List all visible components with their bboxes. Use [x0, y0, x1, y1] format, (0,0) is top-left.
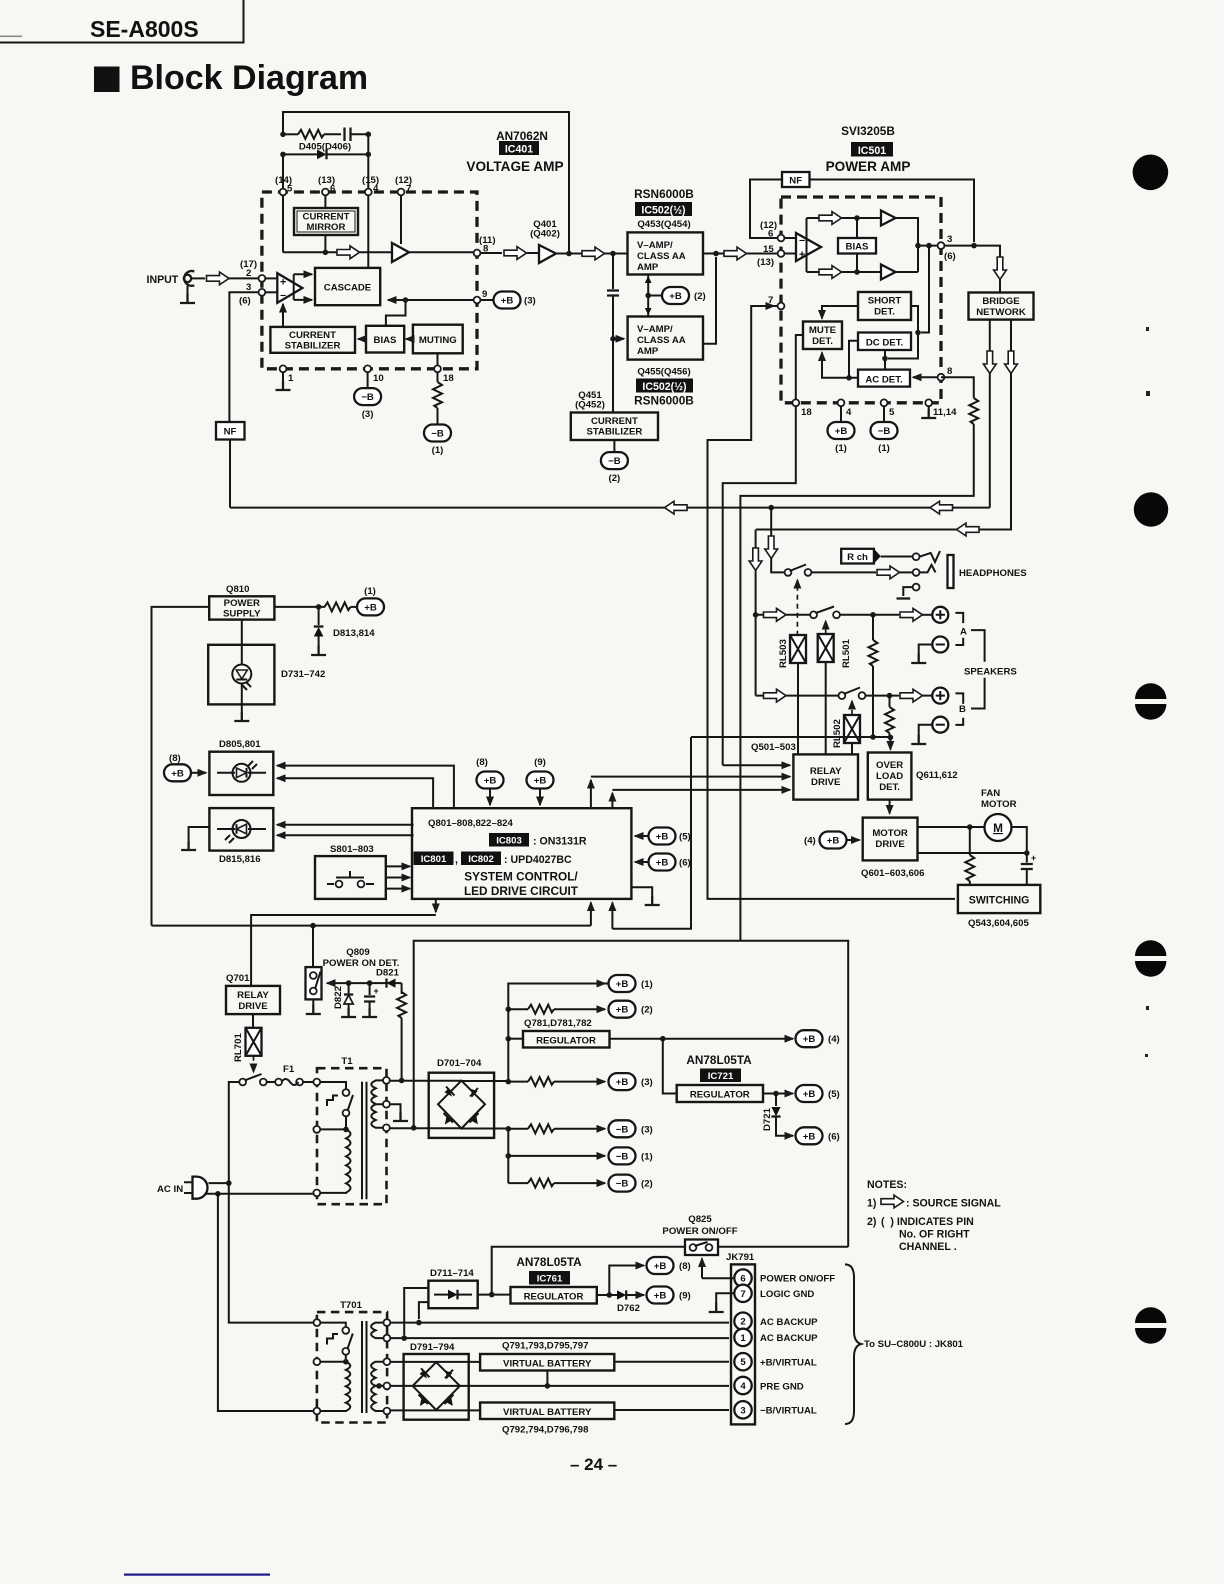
- ground pin11,14: [921, 406, 936, 418]
- svg-text:(1): (1): [878, 443, 890, 454]
- pin 9: [474, 297, 481, 304]
- svg-text:Q781,D781,782: Q781,D781,782: [524, 1018, 592, 1029]
- relay drive box (speakers): [793, 754, 858, 799]
- wire contact to jack L: [811, 571, 876, 573]
- label Q809 POWER ON DET.: [323, 947, 400, 969]
- NF box (input side): [216, 422, 245, 440]
- svg-text:D805,801: D805,801: [219, 739, 261, 750]
- wire line A2 overload return: [612, 737, 691, 929]
- wire pin5 to signal rail: [282, 195, 284, 252]
- svg-text:Q501–503: Q501–503: [751, 742, 796, 753]
- short det box: [858, 292, 911, 320]
- svg-text:D731–742: D731–742: [281, 669, 325, 680]
- label AN78L05TA IC761: [516, 1255, 582, 1285]
- node line B join: [411, 1125, 417, 1131]
- wires opamp to cascade: [294, 274, 312, 300]
- wire plus rail up: [508, 984, 608, 1082]
- source arrow before IC501: [724, 247, 747, 260]
- jack contact L: [913, 569, 920, 576]
- pin 18 IC501: [792, 399, 799, 406]
- +B (8) supply: [647, 1257, 691, 1274]
- mute det box: [803, 322, 842, 350]
- label IC502 (1/2) lower (inverted): [636, 379, 693, 394]
- source arrow NF line right: [930, 501, 953, 514]
- wire IC761 out: [597, 1294, 617, 1296]
- wire Q401 to V-AMP rail: [556, 253, 628, 255]
- power amp triangle: [796, 233, 821, 261]
- pin 15: [778, 250, 785, 257]
- node resistor takeoff: [967, 824, 973, 830]
- svg-text:LOAD: LOAD: [876, 771, 903, 782]
- wire pin6 to amp: [784, 237, 796, 239]
- pin 4 connector: [734, 1377, 751, 1394]
- wire amp to pin8: [409, 251, 502, 254]
- +B (1) supply pin4: [828, 406, 855, 454]
- svg-text:9: 9: [482, 289, 487, 300]
- speaker terminal A-: [932, 637, 948, 653]
- svg-text:R ch: R ch: [847, 552, 868, 563]
- svg-text:IC502(½): IC502(½): [642, 381, 686, 393]
- svg-text:STABILIZER: STABILIZER: [587, 427, 643, 438]
- svg-text:IC801: IC801: [421, 854, 447, 865]
- wire input to pin2: [191, 277, 205, 279]
- pin 7: [398, 189, 405, 196]
- wire D711 inputs from AC backup: [404, 1288, 428, 1335]
- svg-text:D711–714: D711–714: [430, 1268, 474, 1279]
- wire output to pin3: [918, 245, 938, 247]
- pin 8: [938, 374, 945, 381]
- wire V-AMP2 output loop: [703, 257, 716, 344]
- registration mark circle 2: [1134, 492, 1168, 526]
- node plus rail: [506, 1079, 512, 1085]
- wire line A (supply rail): [152, 925, 591, 927]
- svg-text:LED DRIVE CIRCUIT: LED DRIVE CIRCUIT: [464, 884, 579, 898]
- svg-text:DET.: DET.: [874, 307, 895, 318]
- ground D815: [181, 827, 209, 850]
- relay coil RL502 dashed link: [851, 701, 853, 715]
- svg-text:AC BACKUP: AC BACKUP: [760, 1333, 818, 1344]
- relay coil RL503 dashed link: [796, 580, 798, 636]
- wire top drive path: [807, 217, 882, 219]
- svg-text:+: +: [799, 249, 805, 261]
- node ac det left: [846, 375, 852, 381]
- wire secondary top to bridge: [390, 1080, 462, 1082]
- svg-text:SWITCHING: SWITCHING: [969, 895, 1030, 907]
- svg-text:(3): (3): [524, 296, 536, 307]
- svg-text:INPUT: INPUT: [147, 274, 179, 286]
- wire motor drive bottom out: [918, 852, 1027, 854]
- wire NF to speaker line: [229, 440, 231, 508]
- svg-text:SYSTEM CONTROL/: SYSTEM CONTROL/: [464, 870, 578, 884]
- svg-text:SHORT: SHORT: [868, 296, 902, 307]
- wire minus rail down: [507, 1129, 509, 1183]
- T1 primary terminals: [313, 1079, 320, 1197]
- node minus rail: [506, 1126, 512, 1132]
- svg-text:1: 1: [288, 373, 294, 384]
- svg-text:2: 2: [246, 268, 251, 279]
- svg-text:MUTE: MUTE: [809, 325, 837, 336]
- svg-text:V–AMP/: V–AMP/: [637, 324, 673, 335]
- svg-text:,: ,: [455, 854, 458, 866]
- svg-text:AN78L05TA: AN78L05TA: [686, 1053, 752, 1067]
- svg-text:(1): (1): [835, 443, 847, 454]
- wire pin7 to buffer amp: [400, 195, 402, 244]
- node V-AMP out join: [713, 251, 719, 257]
- svg-text:(Q452): (Q452): [575, 400, 605, 411]
- headphone relay contact: [785, 565, 812, 576]
- speaker terminal A+: [932, 607, 948, 623]
- svg-text:IC761: IC761: [537, 1274, 563, 1285]
- svg-text:CURRENT: CURRENT: [591, 416, 638, 427]
- AC relay contact: [239, 1074, 266, 1085]
- resistor overload sense A: [869, 615, 878, 737]
- svg-text:Q791,793,D795,797: Q791,793,D795,797: [502, 1341, 588, 1352]
- svg-text:4: 4: [740, 1381, 746, 1392]
- pin 4: [365, 189, 372, 196]
- wire muting to bias: [406, 338, 413, 340]
- T1 secondary terminals: [383, 1077, 390, 1131]
- wire dc det left loop: [849, 341, 858, 378]
- T1 secondary coil: [371, 1080, 384, 1127]
- relay coil RL503: [790, 635, 806, 663]
- registration mark circle 1: [1133, 155, 1169, 191]
- pin 1: [280, 365, 287, 372]
- svg-text:−: −: [280, 290, 286, 302]
- node A takeoff: [753, 612, 759, 618]
- svg-text:D701–704: D701–704: [437, 1058, 482, 1069]
- resistor overload sense B: [885, 696, 894, 738]
- pin 18: [434, 365, 441, 372]
- wire pin4 into cascade: [367, 195, 369, 268]
- svg-text:+: +: [1031, 853, 1036, 863]
- svg-text:Q809: Q809: [346, 947, 369, 958]
- relay contact A: [810, 607, 840, 619]
- wire regulator out: [610, 1038, 794, 1040]
- svg-text:(8): (8): [679, 1261, 691, 1272]
- Q809 switch box: [306, 967, 322, 999]
- wire IC721 out: [763, 1093, 793, 1095]
- ground sysctl: [631, 887, 659, 905]
- svg-text:(Q402): (Q402): [530, 229, 560, 240]
- wire pin6 stub: [702, 1277, 734, 1279]
- LED block D731-742: [208, 645, 274, 705]
- -B (1) feed: [508, 1147, 652, 1164]
- node overload A: [870, 734, 876, 740]
- pin 1 connector: [734, 1329, 751, 1346]
- wire NF to output: [810, 180, 975, 243]
- svg-text:Q825: Q825: [688, 1214, 712, 1225]
- +B (9) supply: [647, 1287, 691, 1304]
- ground LED block: [234, 704, 249, 721]
- svg-text:(1): (1): [641, 979, 653, 990]
- label Q451 (Q452): [575, 390, 605, 411]
- svg-text:MOTOR: MOTOR: [981, 799, 1017, 810]
- diode D721: [771, 1094, 793, 1136]
- wire rail to Q825 line: [492, 1247, 685, 1295]
- wire speaker feed drop: [755, 530, 757, 696]
- connector pin labels: [760, 1274, 835, 1417]
- zener D822: [341, 983, 356, 1017]
- svg-text:−B/VIRTUAL: −B/VIRTUAL: [760, 1406, 817, 1417]
- wire VB2 to pin3: [614, 1409, 729, 1411]
- pin 2 connector: [734, 1313, 751, 1330]
- wire rail to IC501: [703, 253, 778, 255]
- wire fan loop: [1012, 827, 1027, 853]
- regulator box Q781: [508, 1031, 609, 1048]
- wire bottom drive path: [807, 271, 882, 273]
- connector JK791 body: [731, 1264, 755, 1424]
- T1 dashed box: [317, 1068, 387, 1204]
- +B (1) supply main: [351, 586, 385, 615]
- svg-text:6: 6: [768, 229, 773, 240]
- wire relay input mid: [591, 777, 790, 809]
- source arrow B feed: [764, 689, 787, 702]
- label IC502 (1/2) upper (inverted): [635, 202, 692, 217]
- wire headphone takeoff: [771, 508, 784, 573]
- V-AMP/CLASS AA AMP box lower: [628, 317, 703, 360]
- resistor to switching: [965, 827, 974, 885]
- -B (1) supply pin18: [424, 425, 451, 457]
- wire lineA to Q809: [312, 926, 314, 968]
- cascade box: [315, 268, 380, 305]
- svg-text:7: 7: [768, 295, 773, 306]
- svg-text:S801–803: S801–803: [330, 844, 374, 855]
- node AC2: [215, 1191, 221, 1197]
- svg-text:RELAY: RELAY: [237, 990, 269, 1001]
- bridge rectifier D701-704: [429, 1073, 494, 1138]
- source arrow before V-AMP: [582, 247, 605, 260]
- svg-text:(1): (1): [364, 586, 376, 597]
- bias box IC401: [366, 326, 404, 353]
- svg-text:: SOURCE SIGNAL: : SOURCE SIGNAL: [906, 1198, 1001, 1210]
- wire power supply left frame: [152, 607, 210, 926]
- wire pin18 control line: [723, 406, 796, 765]
- source arrow down to bridge: [994, 257, 1007, 280]
- wire bias to stabilizer: [358, 338, 366, 340]
- pin 3: [938, 242, 945, 249]
- wire speaker A row: [756, 614, 811, 616]
- wire AC1 down to T701: [229, 1183, 314, 1323]
- wire mute det to pin18: [796, 335, 803, 399]
- svg-text:AC DET.: AC DET.: [865, 375, 902, 386]
- switching box: [958, 885, 1040, 913]
- +B (6) supply: [796, 1127, 840, 1144]
- wire bottom to output node: [896, 271, 919, 273]
- wire AC2 down to T701: [218, 1194, 314, 1411]
- node on rail below mirror: [323, 250, 329, 256]
- svg-text:1): 1): [867, 1198, 876, 1210]
- svg-text:(2): (2): [641, 1005, 653, 1016]
- label Q825 POWER ON/OFF: [662, 1214, 737, 1237]
- svg-text:D405(D406): D405(D406): [299, 142, 351, 153]
- svg-text:D791–794: D791–794: [410, 1342, 455, 1353]
- svg-text:To SU–C800U : JK801: To SU–C800U : JK801: [864, 1339, 964, 1350]
- svg-text:CASCADE: CASCADE: [324, 283, 372, 294]
- svg-text:Q611,612: Q611,612: [916, 770, 958, 781]
- page footer line: [124, 1574, 270, 1576]
- driver triangle bottom: [881, 265, 896, 280]
- svg-text:( ) INDICATES PIN: ( ) INDICATES PIN: [881, 1216, 974, 1228]
- registration mark half-disc 3: [1135, 1307, 1166, 1343]
- svg-text:Q455(Q456): Q455(Q456): [637, 367, 690, 378]
- svg-text:D822: D822: [333, 986, 344, 1009]
- wire pin8 to Q401: [527, 252, 539, 254]
- speaker terminal B+: [932, 688, 948, 704]
- svg-text:LOGIC GND: LOGIC GND: [760, 1289, 814, 1300]
- svg-text:7: 7: [406, 184, 411, 195]
- pin 6 connector: [734, 1269, 751, 1286]
- pin 3 connector: [734, 1401, 751, 1418]
- dc det box: [858, 333, 911, 351]
- wire pin8 AC sense line: [740, 377, 978, 941]
- svg-text:18: 18: [801, 407, 812, 418]
- svg-text:(13): (13): [757, 257, 774, 268]
- T701 left terminals: [314, 1319, 321, 1414]
- wire pin15 to amp: [784, 253, 796, 255]
- wire bridge output R: [756, 320, 1011, 530]
- relay coil RL701: [246, 1028, 262, 1056]
- bridge rectifier D791-794: [404, 1354, 469, 1420]
- resistor R401 (feedback): [283, 130, 341, 139]
- model label box SE-A800S: [0, 0, 244, 43]
- wire AC backup pin2: [390, 1322, 729, 1324]
- svg-text:FAN: FAN: [981, 788, 1000, 799]
- AC plug: [184, 1177, 208, 1199]
- svg-text:AC IN: AC IN: [157, 1184, 183, 1195]
- wire pin3 to bridge network: [944, 246, 1000, 293]
- svg-text:D813,814: D813,814: [333, 628, 375, 639]
- relay coil RL501 dashed link: [825, 621, 827, 634]
- svg-text:: ON3131R: : ON3131R: [533, 836, 587, 848]
- node D711 in1: [416, 1320, 422, 1326]
- +B (3) supply pin9: [480, 292, 535, 309]
- labels pin8: [479, 235, 496, 255]
- -B (3) supply pin10: [354, 372, 381, 420]
- svg-text:CURRENT: CURRENT: [289, 330, 336, 341]
- svg-text:3: 3: [740, 1405, 745, 1416]
- svg-text:(3): (3): [362, 409, 374, 420]
- wire pin3 to NF: [229, 292, 258, 422]
- -B (1) supply pin5: [871, 406, 898, 454]
- svg-text:(5): (5): [828, 1089, 840, 1100]
- +B (2) resistor feed: [508, 1001, 652, 1018]
- svg-text:: UPD4027BC: : UPD4027BC: [504, 854, 572, 866]
- svg-text:(2): (2): [609, 473, 621, 484]
- svg-text:CHANNEL .: CHANNEL .: [899, 1241, 957, 1253]
- svg-text:DRIVE: DRIVE: [238, 1001, 268, 1012]
- source arrow A feed: [764, 608, 787, 621]
- source arrow top path: [819, 212, 842, 225]
- svg-text:(4): (4): [828, 1034, 840, 1045]
- V-AMP/CLASS AA AMP box upper: [628, 232, 704, 274]
- node bias/pin9: [403, 297, 409, 303]
- buffer amp triangle: [392, 243, 409, 262]
- driver triangle top: [881, 211, 896, 226]
- svg-text:3: 3: [947, 234, 952, 245]
- svg-text:BIAS: BIAS: [374, 335, 398, 346]
- coupling capacitor C451: [607, 254, 619, 339]
- svg-text:(3): (3): [641, 1124, 653, 1135]
- svg-text:(1): (1): [641, 1151, 653, 1162]
- wire relay coils to driver: [798, 663, 852, 754]
- label IC401 (inverted): [499, 141, 539, 156]
- notes text: [867, 1179, 1001, 1253]
- svg-text:DRIVE: DRIVE: [875, 839, 905, 850]
- svg-text:CLASS AA: CLASS AA: [637, 251, 686, 262]
- node D721 tap: [773, 1091, 779, 1097]
- node D822 takeoff: [346, 980, 352, 986]
- fuse F1: [267, 1079, 314, 1086]
- pin 7 connector: [734, 1285, 751, 1302]
- svg-text:IC803: IC803: [496, 836, 522, 847]
- svg-text:5: 5: [889, 407, 895, 418]
- wire pin3 to opamp: [265, 291, 277, 293]
- wire contact B to terminal: [865, 695, 899, 697]
- opamp U401a: [277, 273, 302, 303]
- svg-text:8: 8: [483, 244, 489, 255]
- bias box IC501: [838, 238, 876, 254]
- capacitor C401 (feedback): [345, 128, 369, 142]
- wire sleeve to ground: [897, 587, 913, 598]
- svg-text:M: M: [993, 821, 1003, 835]
- brace to SU-C800U: [845, 1264, 861, 1424]
- svg-text:AN7062N: AN7062N: [496, 129, 548, 143]
- wire supply to +B: [274, 606, 325, 608]
- svg-text:B: B: [959, 704, 966, 715]
- svg-text:RL502: RL502: [832, 719, 843, 748]
- speck marks right edge: [1145, 327, 1150, 1057]
- node +B8 tap: [607, 1292, 613, 1298]
- T1 thermal cutout: [320, 1082, 353, 1129]
- wire secondary bottom to bridge: [390, 1127, 462, 1129]
- T1 primary coil: [320, 1127, 350, 1193]
- wire secondary2 to D791 top: [390, 1361, 480, 1363]
- node overload B: [888, 735, 894, 741]
- svg-text:D762: D762: [617, 1303, 640, 1314]
- relay coil RL501: [818, 634, 834, 662]
- notes source arrow sample: [881, 1195, 904, 1208]
- bottom pin labels: [801, 407, 957, 418]
- wire AC1 up to contact: [229, 1082, 240, 1183]
- svg-text:DET.: DET.: [879, 782, 900, 793]
- svg-text:RSN6000B: RSN6000B: [634, 187, 694, 201]
- svg-text:6: 6: [740, 1274, 745, 1285]
- source arrow A out: [900, 608, 923, 621]
- wire pin5 stub: [282, 154, 284, 192]
- (4) +B supply motor: [804, 832, 860, 849]
- wire short det to mute det: [822, 306, 858, 319]
- ac det box: [858, 370, 910, 387]
- label AN78L05TA IC721: [686, 1053, 752, 1082]
- capacitor to switching: [1021, 853, 1036, 885]
- svg-text:A: A: [960, 627, 967, 638]
- jack tip shape L: [920, 565, 936, 573]
- wire Q825 out: [718, 1246, 848, 1248]
- svg-text:10: 10: [373, 373, 384, 384]
- node output: [915, 243, 921, 249]
- node det join: [915, 330, 921, 336]
- svg-text:No. OF RIGHT: No. OF RIGHT: [899, 1229, 970, 1241]
- svg-text:T1: T1: [341, 1056, 353, 1067]
- source arrow headphone drop: [765, 536, 778, 559]
- source arrow bridge out L: [983, 351, 996, 374]
- resistor Q809 sense: [397, 983, 406, 1080]
- wire secondary mid to ground: [390, 1104, 408, 1121]
- svg-text:4: 4: [846, 407, 852, 418]
- svg-text:BRIDGE: BRIDGE: [982, 296, 1020, 307]
- svg-text:IC501: IC501: [858, 145, 886, 157]
- svg-text:7: 7: [740, 1289, 745, 1300]
